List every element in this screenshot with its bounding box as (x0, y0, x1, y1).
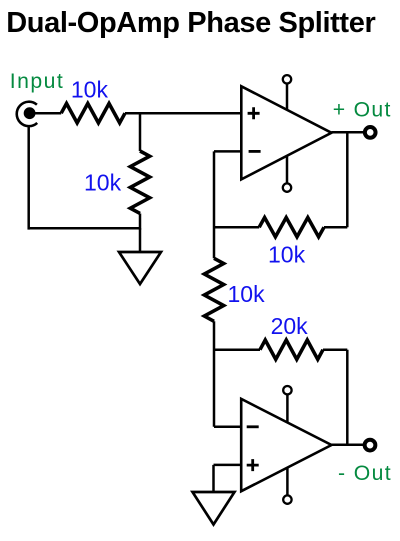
wire: bottom rail horizontal (28, 227, 141, 230)
wire: feedback rail R3 left segment (214, 226, 259, 229)
wire: mid vertical node lower part to U2 inverting stub (213, 321, 216, 427)
input jack J1 (17, 102, 37, 126)
svg-text:10k: 10k (228, 281, 266, 307)
wire: jack dot to R1 left (30, 112, 62, 115)
wire: jack bottom down left side (27, 125, 30, 229)
resistor R1 10k horizontal (61, 104, 125, 123)
resistor R4 10k vertical middle (204, 258, 223, 321)
op-amp U1 triangle (241, 86, 331, 179)
svg-text:Input: Input (10, 70, 64, 93)
resistor R3 10k feedback (259, 218, 324, 237)
ground GND1 (119, 252, 161, 284)
wire: U2 noninverting input stub (214, 464, 242, 467)
resistor R5 20k (260, 340, 323, 359)
wire: U1 output to +Out terminal (332, 131, 365, 134)
op-amp U2 top power pin (283, 386, 291, 423)
ground GND2 (193, 492, 235, 525)
wire: R5 right segment (323, 348, 347, 351)
op-amp U1 plus sign (noninverting input marker) (248, 107, 260, 119)
op-amp U2 plus sign (noninverting input marker) (247, 459, 259, 471)
svg-text:+ Out: + Out (333, 99, 392, 122)
wire: U2 output to -Out terminal (332, 444, 365, 447)
svg-text:20k: 20k (271, 313, 309, 339)
svg-text:10k: 10k (268, 242, 306, 268)
wire: ground stub below junction (139, 228, 142, 252)
wire: R5 feedback drop to U2 output (346, 350, 349, 445)
terminal -Out (bold ring) (365, 440, 376, 451)
resistor R2 10k vertical (130, 151, 149, 213)
svg-text:10k: 10k (71, 77, 109, 103)
svg-text:- Out: - Out (338, 462, 392, 485)
wire: R5 branch left segment (214, 348, 260, 351)
wire: mid vertical node (inverting node) upper part (213, 151, 216, 258)
op-amp U1 bottom power pin (283, 156, 291, 192)
svg-text:10k: 10k (84, 170, 122, 196)
wire: feedback drop from output wire (346, 132, 349, 227)
terminal +Out (bold ring) (365, 127, 376, 138)
wire: R1 right to op-amp U1 + input (125, 112, 241, 115)
svg-text:Dual-OpAmp Phase Splitter: Dual-OpAmp Phase Splitter (6, 7, 375, 39)
op-amp U1 top power pin (283, 75, 291, 110)
wire: U1 inverting input stub (214, 150, 241, 153)
op-amp U2 bottom power pin (283, 468, 291, 504)
op-amp U2 triangle (241, 399, 331, 491)
op-amp U2 minus sign (inverting input marker) (247, 425, 259, 428)
wire: U2 inverting input stub (214, 426, 241, 429)
wire: junction drop to R2 top (139, 113, 142, 151)
wire: R3 right segment to feedback drop (324, 226, 347, 229)
wire: R2 bottom to bottom rail (139, 214, 142, 230)
wire: U2 + input down to ground (212, 465, 215, 492)
op-amp U1 minus sign (inverting input marker) (249, 150, 261, 153)
